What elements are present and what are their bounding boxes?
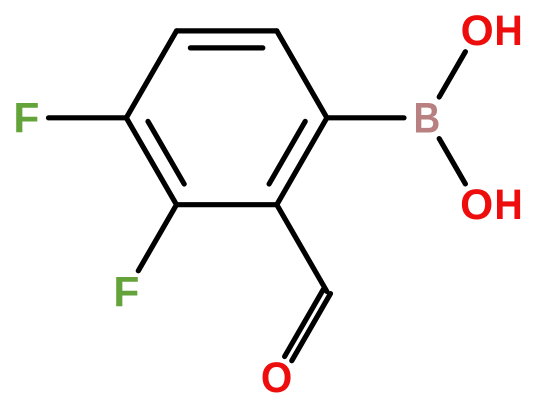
wire: ring bond C1-C2 (double, outer) — [277, 118, 327, 205]
svg-text:H: H — [494, 180, 522, 228]
wire: bond C1-B — [327, 115, 404, 120]
svg-text:O: O — [461, 8, 494, 55]
wire: bond C7=O3 double line a — [292, 294, 331, 361]
wire: ring bond C5-C6 (double, outer) — [177, 28, 277, 33]
wire: bond C3-F2 — [138, 205, 176, 271]
svg-text:O: O — [261, 353, 292, 401]
wire: bond C7=O3 double line b — [285, 289, 324, 356]
svg-text:B: B — [413, 95, 440, 142]
wire: bond C2-C7 (aldehyde carbon) — [277, 205, 327, 292]
wire: bond B-O1 (upper OH) — [439, 52, 465, 97]
wire: ring bond C1-C2 inner double line — [269, 121, 305, 184]
svg-text:F: F — [13, 96, 39, 143]
svg-text:O: O — [460, 182, 493, 229]
svg-text:H: H — [494, 7, 522, 55]
wire: ring bond C4-C5 — [126, 31, 176, 118]
wire: ring bond C3-C4 (double, outer) — [126, 118, 176, 205]
wire: bond B-O2 (lower OH) — [439, 139, 465, 184]
wire: ring bond C3-C4 inner double line — [148, 121, 184, 184]
svg-text:F: F — [113, 269, 139, 316]
wire: ring bond C2-C3 — [177, 202, 277, 207]
wire: bond C4-F1 — [49, 115, 127, 120]
wire: ring bond C5-C6 inner double line — [190, 45, 262, 50]
wire: ring bond C6-C1 — [277, 31, 327, 118]
